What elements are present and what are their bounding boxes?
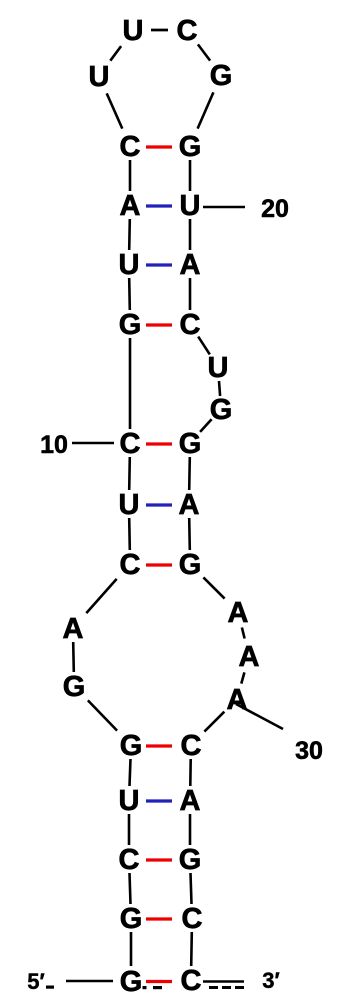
svg-text:G: G [210,394,233,426]
artifact dot below pair G34=C35 [143,986,147,989]
wire from 5' end [66,980,113,983]
svg-text:A: A [179,489,200,521]
backbone wire G4-G6 [198,92,214,128]
backbone wire A25-C27 [204,712,224,732]
base pair C15=G16 (red) [146,442,172,445]
wire to 3' end (dashed artifact) [209,986,248,989]
svg-text:C: C [120,549,141,581]
svg-text:C: C [120,131,141,163]
base pair A7=U8 (blue) [146,204,172,207]
svg-text:U: U [119,249,140,281]
svg-text:30: 30 [295,737,323,765]
backbone wire A7-C5 [129,160,132,191]
backbone wire A23-A24 [242,628,245,639]
backbone wire A18-G20 [188,518,191,550]
svg-text:C: C [119,844,140,876]
svg-text:U: U [180,190,201,222]
svg-text:A: A [228,597,249,629]
backbone wire C33-C35 [190,932,193,966]
base pair G34=C35 (red) [146,980,172,983]
artifact dash below pair G34=C35 [153,986,162,989]
backbone wire U13-G14 [219,381,220,396]
wire to label 30 [236,704,283,729]
svg-text:A: A [239,641,260,673]
base pair G32=C33 (red) [146,917,172,920]
svg-text:U: U [89,61,110,93]
backbone wire C30-U28 [128,814,131,845]
backbone wire G22-A21 [72,642,75,672]
backbone wire G14-G16 [200,419,212,432]
svg-text:5′: 5′ [27,969,45,994]
svg-text:10: 10 [40,431,68,459]
svg-text:G: G [119,309,142,341]
artifact dot after 5' [46,986,54,989]
svg-text:G: G [179,549,202,581]
svg-text:A: A [227,684,248,716]
backbone wire G34-G32 [130,932,133,966]
svg-text:C: C [177,15,198,47]
svg-text:C: C [181,730,202,762]
base pair U9=A10 (blue) [146,263,172,266]
backbone wire C19-U17 [128,518,131,550]
svg-text:A: A [120,190,141,222]
svg-text:U: U [119,489,140,521]
svg-text:A: A [63,613,84,645]
backbone wire U3-U1 [110,46,121,61]
backbone wire U17-C15 [128,457,131,490]
svg-text:G: G [120,966,143,998]
svg-text:C: C [182,903,203,935]
svg-text:C: C [181,965,202,997]
backbone wire C15-G11 [129,338,132,429]
backbone wire A24-A25 [241,672,244,683]
svg-text:U: U [119,785,140,817]
backbone wire A29-G31 [189,814,192,845]
backbone wire G31-C33 [191,873,192,904]
backbone wire A21-C19 [86,579,116,613]
svg-text:G: G [120,730,143,762]
backbone wire C5-U3 [107,93,123,128]
backbone wire U28-G26 [130,759,131,786]
svg-text:A: A [180,249,201,281]
backbone wire U1-C2 (loop top) [151,29,168,32]
backbone wire G6-U8 [189,160,192,191]
backbone wire G32-C30 [130,873,131,904]
svg-text:C: C [180,309,201,341]
base pair C5=G6 (red) [146,145,172,148]
svg-text:3′: 3′ [262,968,280,993]
svg-text:U: U [123,15,144,47]
svg-text:G: G [63,671,86,703]
backbone wire U8-A10 [189,219,192,250]
base pair G26=C27 (red) [146,744,172,747]
svg-text:G: G [179,844,202,876]
base pair C19=G20 (red) [146,563,172,566]
backbone wire C2-G4 [198,44,210,60]
backbone wire G20-A23 [203,577,224,598]
svg-text:G: G [120,903,143,935]
svg-text:20: 20 [261,195,289,223]
wire to label 20 [203,206,245,209]
base pair G11=C12 (red) [146,323,172,326]
backbone wire C27-A29 [189,759,192,786]
backbone wire G16-A18 [188,457,191,490]
backbone wire U9-A7 [128,219,131,250]
backbone wire C12-U13 [198,337,210,355]
svg-text:G: G [179,131,202,163]
svg-text:A: A [180,785,201,817]
base pair U28=A29 (blue) [146,799,172,802]
base pair U17=A18 (blue) [146,503,172,506]
backbone wire G11-U9 [128,278,131,310]
wire to label 10 [72,442,114,445]
svg-text:G: G [179,428,202,460]
backbone wire A10-C12 [189,278,192,310]
base pair C30=G31 (red) [146,858,172,861]
backbone wire G26-G22 [88,700,117,730]
svg-text:G: G [210,60,233,92]
svg-text:C: C [120,428,141,460]
wire to 3' end (solid) [203,980,244,983]
svg-text:U: U [208,352,229,384]
